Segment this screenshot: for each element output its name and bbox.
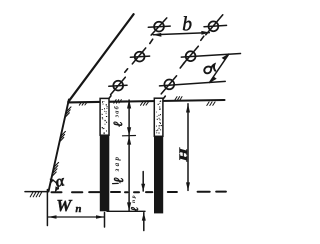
pile head circle 4 [181,46,240,64]
svg-text:ℓ: ℓ [111,121,125,126]
crest hatch group 4 [175,97,182,101]
pile row dash line A lower dash [107,96,111,101]
right pile outline + stipple [154,98,163,136]
svg-text:п: п [75,203,81,215]
W_p right witness line [104,213,106,228]
l_zar tail tick [113,182,119,184]
left pile black shaft [100,135,110,211]
crest hatch group 3 [141,102,149,105]
svg-text:ℓ: ℓ [111,177,126,183]
crest ground line [68,100,224,102]
pile tip witness line [107,210,145,212]
svg-text:α: α [54,172,67,191]
crest hatch group 2 [114,100,122,104]
alpha angle arc [50,179,59,193]
svg-text:b: b [182,15,192,36]
l_pr lower segment + up arrow [142,212,146,230]
pile head circle 2 [204,15,227,35]
label l_zar [111,155,126,183]
pile row dash line B lower dash [162,96,165,100]
label H [177,148,190,163]
pile head circle 3 [130,48,149,64]
svg-text:W: W [56,196,73,215]
left pile outline + stipple [100,98,109,135]
W_p dimension line [48,215,105,219]
W_p left witness line [46,190,48,226]
label a [204,64,215,73]
top plane left edge (crest diagonal) [68,14,133,102]
l_zab bottom arrow [127,127,131,136]
l_zab/l_zar boundary tick [123,135,136,137]
dimension b line [152,31,210,37]
svg-text:пр: пр [131,194,137,203]
slope hatch group 2 [59,131,65,142]
label alpha [54,172,67,191]
slip surface dashed line [52,191,226,194]
pile head circle 6 [160,76,226,94]
svg-text:ℓ: ℓ [130,207,141,212]
dimension chain l_zab / l_zar vertical line [128,100,130,211]
label l_zab [111,105,125,127]
dimension H vertical line [186,104,190,191]
pile head circle 1 [148,18,170,35]
l_zab top arrow [127,100,131,109]
pile head circle 5 [109,77,127,94]
pile row dash line B upper dash [201,36,204,40]
svg-text:заб: заб [114,105,121,118]
l_pr upper segment + down arrow [141,172,145,192]
pile row dash line A mid dash [125,69,128,73]
slope hatch group 3 [51,162,58,177]
label l_pr [130,194,141,211]
pile row dash line B mid dash [180,63,184,68]
svg-text:зар: зар [113,155,121,173]
dimension a line [209,53,229,83]
label W_p [56,196,81,215]
lower ground line [25,191,47,193]
l_zar bottom arrow [127,202,131,210]
right pile black shaft [154,136,163,213]
crest hatch group 5 [207,102,215,106]
svg-text:H: H [177,148,190,163]
crest hatch group 1 [79,102,87,105]
l_zar top arrow [127,136,131,145]
slope hatch group 1 [65,107,71,118]
lower ground hatch [30,192,41,197]
pile row dash line A upper dash [150,39,153,43]
slope face line [49,100,69,192]
